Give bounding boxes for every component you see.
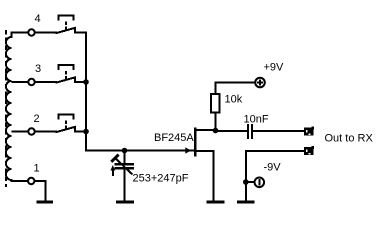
C1 small gang arrow shaft [112,168,114,176]
capacitor C2 10nF [216,124,304,139]
S4 fixed contact [74,29,76,34]
node junction S3/bus [83,79,89,85]
variable capacitor C1 253+247pF [110,151,134,202]
S3 pushbutton bar [57,64,74,66]
Q1 drain lead [196,129,216,131]
wire C1 top [124,151,126,164]
C1 bottom plate [115,167,135,170]
C1 adjust arrow shaft [115,158,133,175]
terminal circle tap 4 [28,29,34,35]
wire R1 bottom to drain node [215,113,217,131]
C2 right plate [251,124,253,139]
terminal circle tap 3 [28,79,34,85]
wire S2 to bus [75,131,87,133]
supply terminal -9V [254,178,264,188]
node junction C1/gate [122,148,128,154]
svg-text:1: 1 [34,163,40,175]
S3 actuator dashed stem [65,71,67,80]
switch S2 [36,115,88,133]
resistor R1 10k [211,94,220,113]
transistor Q1 BF245A (JFET) [185,128,216,202]
svg-text:BF245A: BF245A [154,132,194,144]
wire J1 ground return [246,151,304,201]
wire tap 1 to ground [35,181,45,201]
svg-text:+9V: +9V [264,62,285,74]
wire drain node to C2 [216,130,247,132]
node junction -9V tap [243,179,249,185]
ground (below C1) [116,201,134,204]
svg-text:4: 4 [35,13,41,25]
svg-text:10k: 10k [225,94,243,106]
C1 adjust arrow head bar [111,155,118,162]
switch S4 [36,16,77,34]
connector J1 ground pin [304,146,314,155]
svg-text:10nF: 10nF [244,114,269,126]
wire bus vertical [85,33,87,152]
wire S3 to bus [75,81,87,83]
wire to -9V terminal [246,181,255,183]
svg-text:3: 3 [35,63,41,75]
terminal circle tap 2 [28,128,34,134]
Q1 gate arrow head [185,147,191,153]
connector J1 signal pin [304,127,314,136]
svg-text:253+247pF: 253+247pF [133,173,189,185]
Q1 channel bar [194,128,197,157]
S2 pushbutton bar [57,114,74,116]
node junction S2/bus [83,129,89,135]
terminal circle tap 1 [28,178,34,184]
inductor L1 (tapped coil) [6,33,28,182]
svg-text:2: 2 [34,113,40,125]
wire C1 bottom [124,170,126,202]
S4 lever [56,28,77,34]
wire tap 2 [12,131,28,133]
core (screen) dashed line [5,30,7,187]
svg-text:Out to RX: Out to RX [325,133,374,145]
S2 fixed contact [74,128,76,133]
wire C2 to connector [253,130,304,132]
ground (Q1 source) [207,201,225,204]
S4 actuator dashed stem [65,21,67,30]
wire tap 3 [12,81,28,83]
S3 fixed contact [74,78,76,83]
S3 lever [56,77,77,83]
wire tap3 to S3 [36,81,58,83]
switch S3 [36,65,88,83]
Q1 source lead [196,150,215,152]
wire S4 output to bus [75,32,86,35]
svg-text:-9V: -9V [264,162,282,174]
wire source to ground [213,150,215,201]
S4 pushbutton bar [57,15,74,17]
C2 left plate [247,124,249,139]
ground (J1 return / -9V) [237,201,255,204]
wire gate line [85,150,195,152]
wire tap4 to S4 [36,32,58,34]
supply terminal +9V [255,78,265,88]
C1 top plate [115,163,135,166]
node junction drain/R1/C2 [213,128,219,134]
C1 small gang arrow head [110,165,115,171]
ground (tap 1) [37,201,54,204]
S2 lever [56,127,77,133]
wire R1 top to +9V [216,83,256,94]
wire tap2 to S2 [36,131,58,133]
S2 actuator dashed stem [65,120,67,129]
